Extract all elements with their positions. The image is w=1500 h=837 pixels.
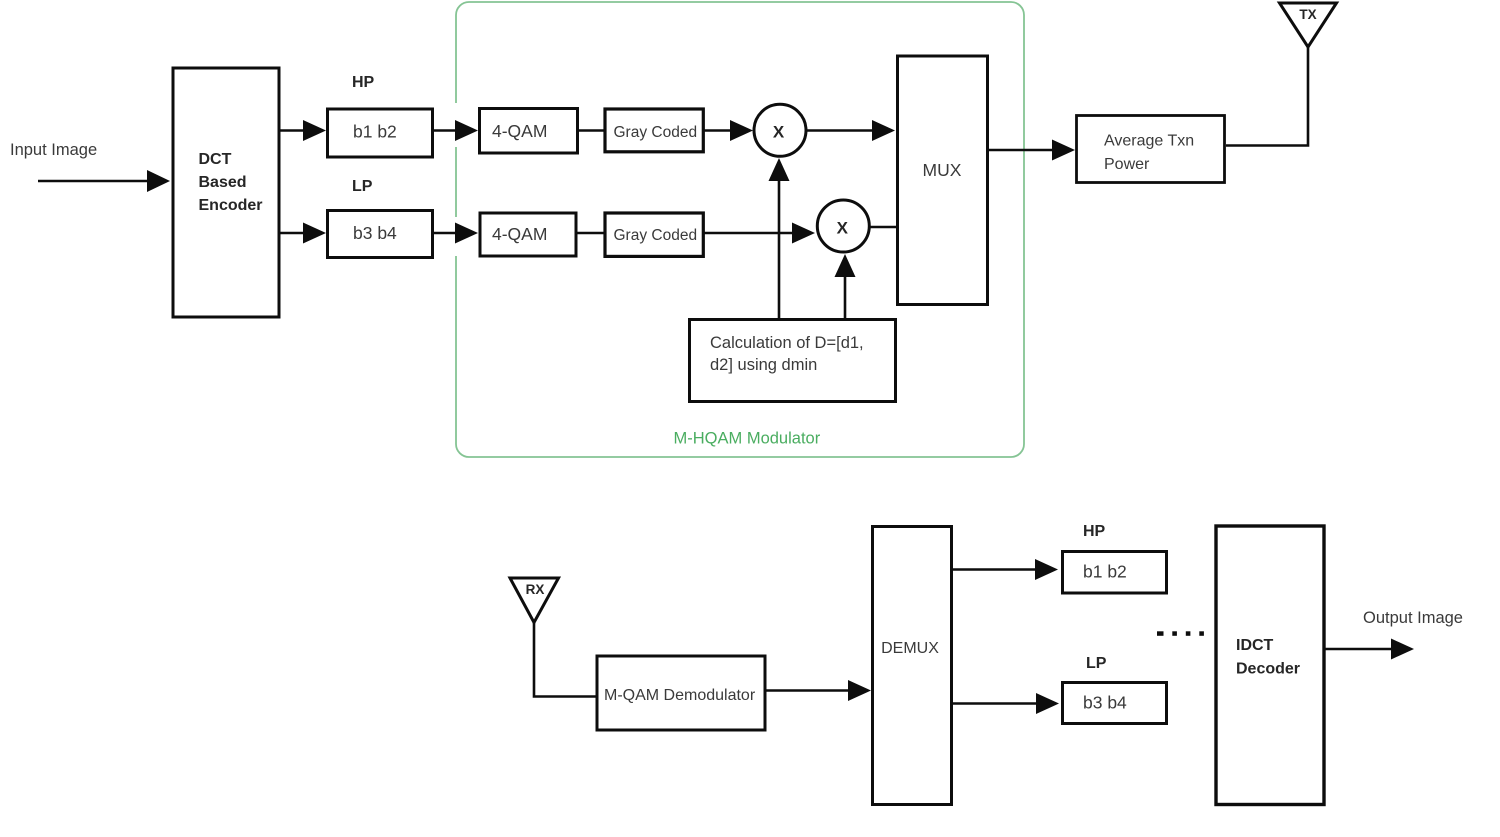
arrowhead: into Average Txn Power [1052, 140, 1075, 161]
svg-text:Average Txn: Average Txn [1104, 133, 1194, 150]
svg-text:DCT: DCT [199, 151, 232, 168]
svg-text:M-HQAM Modulator: M-HQAM Modulator [674, 430, 821, 448]
svg-text:Power: Power [1104, 156, 1150, 173]
multiplier X2 (circle) [817, 200, 869, 252]
wire: d1 from calculation box up to X1 [778, 180, 781, 318]
multiplier X1 (circle) [754, 104, 806, 156]
block: DEMUX [873, 527, 952, 805]
wire: Gray Coded (bottom) to multiplier X2 [704, 232, 793, 235]
label: DCT Based Encoder [199, 151, 263, 214]
block: MUX [898, 56, 988, 305]
wire: DEMUX to b1 b2 (bottom) [953, 568, 1037, 571]
wire: b1 b2 to 4-QAM (top) [434, 129, 457, 132]
wire: multiplier X1 to MUX [807, 129, 874, 132]
wire: RX antenna to M-QAM Demodulator [534, 623, 596, 697]
svg-text:Calculation of D=[d1,: Calculation of D=[d1, [710, 334, 864, 352]
wire: input image arrow [38, 180, 149, 183]
svg-text:4-QAM: 4-QAM [492, 224, 547, 244]
svg-text:IDCT: IDCT [1236, 637, 1274, 654]
arrowhead: into b1 b2 (bottom) [1035, 559, 1058, 580]
block: Average Txn Power [1077, 116, 1225, 183]
arrowhead: output image [1391, 639, 1414, 660]
block: M-QAM Demodulator [597, 656, 765, 730]
svg-text:Gray Coded: Gray Coded [614, 227, 698, 244]
svg-text:X: X [837, 219, 849, 238]
wire: b3 b4 to 4-QAM (bottom row) [434, 232, 457, 235]
arrowhead: into b3 b4 [303, 223, 326, 244]
svg-text:b1 b2: b1 b2 [353, 122, 397, 142]
block: b3 b4 (bottom) [1063, 683, 1167, 724]
svg-text:b1 b2: b1 b2 [1083, 562, 1127, 582]
label: Average Txn Power [1104, 133, 1194, 174]
svg-text:b3 b4: b3 b4 [353, 223, 397, 243]
block: DCT Based Encoder [173, 68, 279, 317]
block: b3 b4 (top) [328, 211, 433, 258]
wire: MUX to Average Txn Power [989, 149, 1054, 152]
label: Calculation of D=[d1, d2] using dmin [710, 334, 864, 374]
block: 4-QAM (bottom row) [480, 213, 576, 256]
antenna TX (triangle) [1280, 3, 1337, 47]
svg-text:MUX: MUX [923, 160, 962, 180]
svg-text:Output Image: Output Image [1363, 609, 1463, 627]
svg-text:Based: Based [199, 174, 247, 191]
block: 4-QAM (top) [480, 109, 578, 154]
arrowhead: into MUX [872, 120, 895, 141]
block: Gray Coded (bottom row) [605, 213, 703, 256]
wire: DCT to b3 b4 [280, 232, 305, 235]
svg-text:M-QAM Demodulator: M-QAM Demodulator [604, 687, 756, 704]
svg-text:b3 b4: b3 b4 [1083, 693, 1127, 713]
arrowhead: up into X1 [769, 158, 790, 181]
wire: DCT to b1 b2 [280, 129, 305, 132]
wire: DEMUX to b3 b4 (bottom) [953, 702, 1037, 705]
svg-text:Encoder: Encoder [199, 197, 263, 214]
svg-text:LP: LP [352, 178, 373, 195]
label: IDCT Decoder [1236, 637, 1300, 678]
svg-text:Input Image: Input Image [10, 141, 97, 159]
arrowhead: into 4-QAM (bottom row) [455, 223, 478, 244]
dotted link: b boxes to IDCT decoder [1157, 631, 1204, 636]
svg-text:Decoder: Decoder [1236, 661, 1300, 678]
group box: M-HQAM Modulator (green rounded rect) [456, 2, 1024, 457]
wire: multiplier X2 to MUX [871, 226, 898, 229]
wire: Gray Coded to multiplier X1 [704, 129, 733, 132]
block: b1 b2 (bottom) [1063, 552, 1167, 594]
svg-text:RX: RX [526, 582, 545, 597]
white gap in green border at HP arrow crossing [451, 103, 459, 147]
svg-text:HP: HP [1083, 523, 1106, 540]
wire: IDCT Decoder to output [1324, 648, 1393, 651]
block: Gray Coded (top) [605, 109, 703, 152]
arrowhead: into 4-QAM (top) [455, 120, 478, 141]
arrowhead: into DEMUX [848, 680, 871, 701]
wire: M-QAM Demodulator to DEMUX [766, 689, 850, 692]
wire: d2 from calculation box up to X2 [844, 276, 847, 318]
arrowhead: into DCT encoder [147, 170, 170, 192]
arrowhead: into multiplier X1 [730, 120, 753, 141]
arrowhead: up into X2 [835, 254, 856, 277]
block: Calculation of D [690, 320, 896, 402]
wire: 4-QAM to Gray Coded (top) [578, 129, 605, 132]
svg-text:TX: TX [1299, 7, 1316, 22]
svg-text:4-QAM: 4-QAM [492, 121, 547, 141]
svg-text:DEMUX: DEMUX [881, 640, 939, 657]
svg-text:X: X [773, 123, 785, 142]
svg-text:d2] using dmin: d2] using dmin [710, 356, 817, 374]
svg-text:Gray Coded: Gray Coded [614, 124, 698, 141]
wire: 4-QAM to Gray Coded (bottom row) [576, 232, 605, 235]
block: b1 b2 (top) [328, 109, 433, 157]
white gap in green border at LP arrow crossing [451, 217, 459, 256]
arrowhead: into multiplier X2 [792, 223, 815, 244]
arrowhead: into b1 b2 [303, 120, 326, 141]
block: IDCT Decoder [1216, 526, 1324, 805]
svg-text:HP: HP [352, 74, 375, 91]
antenna RX (triangle) [510, 578, 559, 623]
svg-text:LP: LP [1086, 655, 1107, 672]
wire: Average Txn Power to TX antenna [1226, 47, 1308, 146]
arrowhead: into b3 b4 (bottom) [1036, 693, 1059, 714]
